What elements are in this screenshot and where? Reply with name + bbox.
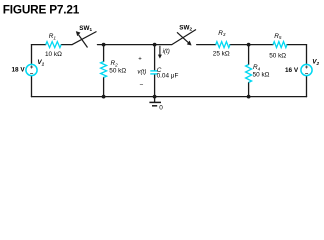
wire R1 to SW1 left contact [61,44,71,46]
svg-text:50 kΩ: 50 kΩ [109,68,126,75]
svg-text:18 V: 18 V [12,67,26,74]
wire R5 to top-right corner [287,44,307,46]
switch SW2 arrow [177,32,191,45]
svg-text:50 kΩ: 50 kΩ [253,72,270,79]
resistor R5 zigzag [273,42,287,48]
svg-text:0.04 μF: 0.04 μF [157,73,179,80]
wire left branch above V1 [31,45,33,64]
wire R2 branch upper [103,45,105,62]
svg-text:16 V: 16 V [285,67,299,74]
switch SW2 arm [172,30,196,45]
svg-text:10 kΩ: 10 kΩ [45,51,62,58]
svg-text:FIGURE P7.21: FIGURE P7.21 [3,2,80,16]
node dot top C [153,43,157,47]
node dot top R2 [102,43,106,47]
node dot bottom ground [153,95,157,99]
ground [149,97,161,106]
wire C branch upper [154,45,156,71]
voltage source V2 circle [301,64,312,75]
resistor R3 zigzag [216,42,230,48]
wire right branch above V2 [306,45,308,64]
V2 minus [305,72,308,74]
svg-text:v(t): v(t) [137,69,146,76]
wire SW1 right contact to node A [98,44,155,46]
svg-text:25 kΩ: 25 kΩ [213,50,230,57]
node dot bottom R4 [247,95,251,99]
wire node B to SW2 left contact [155,44,172,46]
V2 plus [305,66,308,69]
resistor R2 zigzag [101,62,107,78]
V1 minus [30,72,33,74]
voltage source V1 circle [26,64,37,75]
node dot top R4 [247,43,251,47]
wire R4 branch upper [248,45,250,65]
node dot bottom R2 [102,95,106,99]
resistor R1 zigzag [46,42,62,48]
svg-text:+: + [138,56,142,62]
svg-text:−: − [140,82,144,89]
wire SW2 right contact to R3 [197,44,216,46]
current arrow i(t) [158,46,161,58]
svg-text:0: 0 [159,104,163,111]
wire C branch lower [154,74,156,96]
resistor R4 zigzag [246,65,252,83]
wire left branch below V1 [31,76,33,97]
wire R4 branch lower [248,83,250,97]
svg-text:50 kΩ: 50 kΩ [269,52,286,59]
wire top-left horizontal from V1 branch to R1 [32,44,46,46]
wire right branch below V2 [306,76,308,97]
switch SW1 arrow [76,31,87,47]
svg-text:i(t): i(t) [163,48,170,55]
switch SW1 arm [72,32,97,45]
wire node C to R5 [249,44,273,46]
wire R2 branch lower [103,78,105,97]
wire bottom horizontal [32,96,307,98]
wire R3 to node C [230,44,249,46]
capacitor C plates [150,71,157,74]
V1 plus [30,66,33,69]
